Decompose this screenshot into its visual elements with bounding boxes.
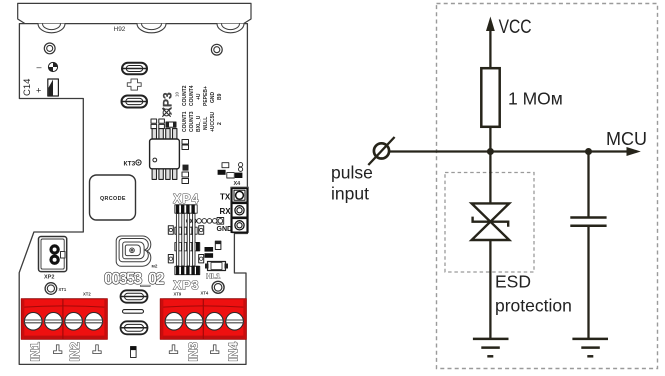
wire resistor bottom to node A bbox=[489, 127, 491, 152]
board order number 00353_02 bbox=[104, 270, 164, 288]
MCU output arrow bbox=[627, 147, 641, 156]
svg-text:RX: RX bbox=[220, 207, 232, 216]
pulse input label bbox=[331, 163, 373, 204]
ESD protection label bbox=[495, 272, 572, 316]
wire node B down to capacitor bbox=[587, 152, 589, 217]
svg-text:PEPEB+: PEPEB+ bbox=[203, 86, 209, 106]
ground symbol left (TVS branch) bbox=[473, 339, 509, 356]
wire capacitor to ground bbox=[587, 227, 589, 340]
svg-text:H92: H92 bbox=[114, 26, 126, 33]
resistors near right edge bbox=[218, 163, 243, 178]
chip resistor above IC bbox=[166, 122, 176, 127]
label HL1 bbox=[206, 272, 220, 281]
ground symbol right (capacitor branch) bbox=[572, 339, 608, 356]
svg-text:IN2: IN2 bbox=[68, 342, 82, 362]
label GND symbol 1 bbox=[54, 345, 62, 354]
fiducial mark near IC bbox=[162, 108, 170, 116]
header XP3 signal name silkscreen (rotated tiny text) bbox=[182, 85, 223, 132]
wire node A down to TVS diode bbox=[489, 152, 491, 205]
terminal screws left block bbox=[24, 313, 104, 331]
svg-text:IN3: IN3 bbox=[187, 342, 201, 362]
jumper pad XT top bbox=[122, 63, 147, 75]
svg-text:КТ3: КТ3 bbox=[124, 161, 136, 168]
logo trademark text bbox=[152, 264, 158, 269]
svg-text:–: – bbox=[37, 62, 42, 72]
svg-text:VCC: VCC bbox=[499, 17, 532, 38]
svg-text:IN4: IN4 bbox=[227, 342, 241, 362]
svg-text:ХР2: ХР2 bbox=[44, 275, 54, 281]
flange notch arc 1 bbox=[38, 24, 65, 33]
LED HL1 bbox=[205, 262, 228, 271]
label GND symbol 2 bbox=[93, 345, 101, 354]
plus mark between jumpers bbox=[127, 79, 141, 90]
connector XP4 pad row lower with side latches bbox=[168, 226, 203, 235]
svg-text:10: 10 bbox=[175, 91, 180, 97]
main board outline bbox=[19, 24, 247, 365]
svg-text:IN1: IN1 bbox=[29, 342, 43, 362]
connector XP1 two-pin bbox=[39, 237, 67, 272]
svg-text:ХТ2: ХТ2 bbox=[83, 292, 91, 297]
label GND symbol 4 bbox=[211, 345, 219, 354]
svg-text:HL1: HL1 bbox=[206, 272, 220, 281]
flange notch arc 2 bbox=[137, 24, 166, 33]
inner dashed box (ESD protection enclosure) bbox=[445, 173, 534, 273]
GND pin pad bbox=[232, 218, 247, 232]
node B junction dot (capacitor branch) bbox=[585, 148, 592, 155]
label XT4 bbox=[201, 291, 209, 296]
terminal screws right block bbox=[164, 313, 244, 331]
svg-text:GND: GND bbox=[210, 92, 216, 104]
label XT9 bbox=[174, 292, 182, 297]
serial header frame TX RX GND bbox=[231, 187, 249, 232]
svg-text:00353_02: 00353_02 bbox=[104, 270, 164, 288]
jumper pad XT bottom bbox=[122, 96, 148, 108]
svg-text:BXL_U: BXL_U bbox=[196, 115, 202, 132]
label IN1 bbox=[29, 342, 43, 362]
svg-text:C14: C14 bbox=[22, 79, 33, 96]
svg-text:COUNT1: COUNT1 bbox=[182, 111, 188, 132]
VCC power arrow bbox=[486, 17, 495, 69]
MCU label bbox=[606, 129, 647, 149]
mounting hole top-left bbox=[44, 43, 55, 54]
label H92 bbox=[114, 26, 126, 33]
connector XP4 designator bbox=[173, 192, 199, 206]
passive pads above IC bbox=[151, 119, 164, 129]
svg-text:Х4: Х4 bbox=[234, 181, 242, 187]
capacitor C14 label bbox=[22, 62, 42, 96]
label KT3 with test point bbox=[124, 160, 142, 168]
jumper pad bottom pair lower bbox=[121, 321, 148, 334]
svg-text:TX: TX bbox=[220, 192, 231, 201]
svg-text:1 МОм: 1 МОм bbox=[508, 89, 563, 109]
node A junction dot (resistor / TVS branch) bbox=[487, 148, 494, 155]
svg-text:+: + bbox=[36, 86, 41, 96]
IC U1 SOIC-8 pins bottom bbox=[152, 169, 177, 180]
terminal block XT9-XT4 (right, red) bbox=[160, 299, 246, 340]
C14 polarity marker circle bbox=[48, 62, 57, 71]
resistor R1 1 MOhm bbox=[481, 68, 499, 127]
svg-text:+UCC5U: +UCC5U bbox=[210, 111, 216, 132]
pulse input open terminal bbox=[368, 137, 394, 165]
connector XP3 vertical slots bbox=[176, 214, 195, 267]
svg-text:COUNT3: COUNT3 bbox=[189, 111, 195, 132]
wire TVS to ground bbox=[489, 240, 491, 340]
XP4 via row bbox=[186, 218, 223, 225]
small polarised part below jumpers bbox=[131, 347, 137, 358]
mounting hole bottom-left bbox=[45, 283, 57, 295]
svg-text:GND: GND bbox=[217, 226, 233, 233]
label IN3 bbox=[187, 342, 201, 362]
svg-text:COUNT4: COUNT4 bbox=[189, 85, 195, 106]
header XP3 rotated designator bbox=[161, 91, 180, 115]
mounting hole bottom-right bbox=[212, 281, 224, 293]
board top flange strip bbox=[18, 3, 251, 23]
TVS diode VD1 (bidirectional suppressor) bbox=[472, 203, 510, 240]
TX pin pad bbox=[232, 188, 247, 202]
mounting hole top-right bbox=[211, 44, 222, 55]
svg-text:input: input bbox=[331, 183, 369, 203]
label XT1 bbox=[59, 287, 67, 292]
svg-text:pulse: pulse bbox=[331, 163, 373, 183]
terminal block XT1-XT2 (left, red) bbox=[21, 299, 107, 340]
label XT2 bbox=[83, 292, 91, 297]
jumper wire bar bbox=[123, 310, 144, 314]
IC U1 SOIC-8 body bbox=[150, 139, 180, 169]
label TX bbox=[220, 192, 231, 201]
svg-text:XP3: XP3 bbox=[173, 279, 199, 293]
horizontal wire pulse input to MCU bbox=[389, 150, 629, 152]
svg-text:2: 2 bbox=[217, 122, 223, 125]
pads right of IC bbox=[182, 140, 189, 184]
outer dashed boundary box bbox=[437, 4, 658, 369]
svg-text:MCU: MCU bbox=[606, 129, 647, 149]
RX pin pad bbox=[232, 203, 247, 217]
connector XP3 pad row lower bbox=[175, 266, 200, 275]
svg-text:QRCODE: QRCODE bbox=[100, 196, 126, 202]
svg-text:NULL: NULL bbox=[203, 117, 209, 130]
QR code frame bbox=[90, 175, 136, 220]
connector XP3 pad row upper with side latches bbox=[168, 242, 203, 263]
label X4 bbox=[234, 181, 242, 187]
label GND bbox=[217, 226, 233, 233]
label GND symbol 3 bbox=[169, 345, 177, 354]
resistor value label 1 MOm bbox=[508, 89, 563, 109]
svg-text:XP4: XP4 bbox=[173, 192, 199, 206]
svg-text:ХТ1: ХТ1 bbox=[59, 287, 67, 292]
svg-text:+U: +U bbox=[196, 93, 202, 100]
svg-text:protection: protection bbox=[495, 296, 572, 316]
svg-text:м2: м2 bbox=[152, 264, 158, 269]
svg-text:ХТ9: ХТ9 bbox=[174, 292, 182, 297]
label XP2 bbox=[44, 275, 54, 281]
svg-text:COUNT2: COUNT2 bbox=[182, 85, 188, 106]
capacitor C14 body bbox=[48, 79, 59, 96]
svg-text:B9: B9 bbox=[217, 93, 223, 100]
svg-text:ESD: ESD bbox=[495, 272, 531, 292]
IC U1 SOIC-8 pins top bbox=[152, 129, 177, 140]
capacitor C1 bbox=[570, 218, 606, 226]
connector XP3 designator bbox=[173, 279, 199, 293]
label RX bbox=[220, 207, 232, 216]
LED pads left of HL1 bbox=[205, 241, 221, 258]
manufacturer logo (nested B) bbox=[116, 236, 151, 266]
svg-text:ХТ4: ХТ4 bbox=[201, 291, 209, 296]
connector XP4 pad row upper bbox=[175, 204, 197, 213]
VCC label bbox=[499, 17, 532, 38]
label IN4 bbox=[227, 342, 241, 362]
label IN2 bbox=[68, 342, 82, 362]
flange notch arc 3 bbox=[217, 24, 244, 33]
jumper pad bottom pair upper bbox=[121, 290, 148, 302]
